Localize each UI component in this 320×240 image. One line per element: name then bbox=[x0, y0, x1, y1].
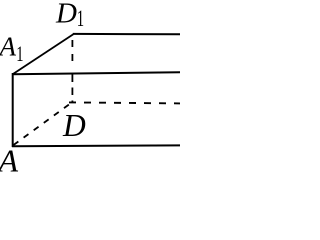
svg-text:1: 1 bbox=[16, 42, 23, 67]
edge D1-C1 (back top horizontal) bbox=[73, 33, 180, 35]
svg-text:A: A bbox=[0, 143, 19, 179]
edge A-A1 (left vertical) bbox=[12, 73, 14, 147]
edge A-D (hidden dashed diagonal) bbox=[14, 102, 73, 145]
svg-text:D: D bbox=[62, 108, 86, 143]
svg-text:A: A bbox=[0, 32, 17, 62]
svg-text:1: 1 bbox=[77, 7, 84, 32]
edge D-D1 (hidden dashed vertical, upper part) bbox=[71, 40, 73, 61]
edge D-C (hidden dashed horizontal) bbox=[69, 102, 180, 103]
edge A-B (front bottom horizontal) bbox=[12, 144, 180, 147]
edge A1-D1 (solid diagonal) bbox=[13, 34, 73, 74]
edge A1-B1 (front top horizontal) bbox=[12, 72, 180, 74]
svg-text:D: D bbox=[55, 0, 77, 30]
edge D-D1 (hidden dashed vertical, lower part) bbox=[71, 75, 73, 103]
